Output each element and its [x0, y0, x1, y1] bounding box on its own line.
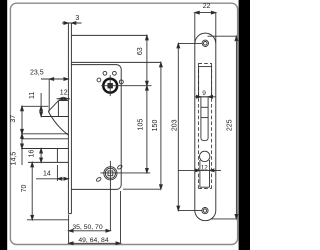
dimension 11	[29, 92, 43, 117]
dimension 12 spindle slot	[179, 164, 222, 172]
svg-text:14: 14	[43, 171, 51, 178]
dimension 14,5	[11, 134, 24, 166]
svg-text:22: 22	[203, 3, 211, 10]
inner plate outline	[71, 65, 121, 190]
bottom screw hole	[202, 208, 208, 214]
svg-text:70: 70	[21, 185, 28, 193]
latch swing arc	[48, 111, 68, 135]
svg-text:23,5: 23,5	[30, 70, 44, 77]
dimension 3	[62, 15, 82, 24]
dimension 37	[10, 106, 23, 165]
spindle circle cutout	[200, 151, 210, 161]
dimension 150	[123, 62, 162, 189]
ext line from case corner	[120, 191, 122, 243]
border frame	[10, 3, 237, 244]
tab cutout top	[119, 80, 123, 84]
svg-text:203: 203	[171, 119, 178, 131]
svg-text:37: 37	[10, 115, 17, 123]
svg-text:150: 150	[152, 120, 159, 132]
svg-text:12: 12	[60, 89, 68, 96]
ledge line 3	[21, 138, 68, 140]
svg-text:35, 50, 70: 35, 50, 70	[72, 224, 102, 231]
screw hole a	[103, 71, 107, 75]
spindle slot cutout	[200, 160, 210, 187]
dimension 203	[171, 43, 202, 210]
bottom ext line	[27, 219, 69, 221]
deadbolt face	[56, 149, 58, 163]
dimension 12 latch	[57, 89, 71, 100]
svg-text:9: 9	[202, 90, 206, 97]
dimension 9	[195, 90, 216, 98]
faceplate side view (double line)	[68, 23, 71, 214]
dimension 35,50,70	[69, 215, 111, 244]
screw hole b	[113, 71, 117, 75]
deadbolt bottom	[28, 161, 68, 163]
tab cutout mid-right	[117, 164, 123, 169]
svg-text:16: 16	[29, 150, 36, 158]
hidden case dashed outline	[198, 63, 211, 188]
latch cutout	[199, 67, 212, 97]
follower (handle hub)	[101, 75, 151, 96]
latch bolt	[41, 101, 68, 117]
svg-text:3: 3	[75, 15, 79, 22]
lock case top edge	[71, 34, 147, 36]
ledge line 2	[21, 133, 68, 135]
ledge line 4	[21, 148, 68, 150]
dimension 16	[29, 149, 43, 163]
dimension 23,5	[30, 70, 68, 112]
faceplate outline	[195, 33, 216, 221]
svg-text:49, 64, 84: 49, 64, 84	[78, 237, 108, 244]
lock case cover edge	[71, 61, 161, 63]
black bar left	[0, 0, 7, 250]
black bar right	[239, 0, 250, 250]
adjusting slot	[201, 97, 208, 141]
dimension 63 and 105 shared line	[137, 35, 149, 173]
wc follower circle	[100, 161, 150, 231]
ledge line 1	[21, 105, 48, 107]
dimension 70	[21, 162, 34, 219]
tab cutout bottom-left	[96, 177, 102, 182]
dimension 49,64,84	[69, 237, 121, 245]
svg-text:105: 105	[138, 119, 145, 131]
dimension 22	[195, 3, 216, 43]
svg-text:14,5: 14,5	[11, 152, 18, 166]
svg-text:63: 63	[137, 47, 144, 55]
screw hole c	[97, 78, 101, 82]
top screw hole	[202, 40, 208, 46]
svg-text:12: 12	[201, 164, 209, 171]
dimension 225	[208, 36, 238, 219]
dimension 14	[36, 165, 68, 181]
svg-text:11: 11	[29, 92, 36, 99]
svg-text:225: 225	[226, 119, 233, 131]
